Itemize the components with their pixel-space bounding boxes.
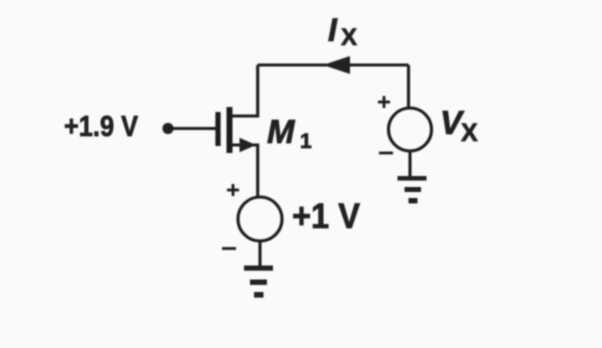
wire Vx top lead [407,65,410,110]
svg-text:M: M [267,113,296,150]
current arrow Ix [323,56,350,74]
source +1V circle [238,197,282,241]
ground (+1V) [244,266,273,298]
+1V plus sign [227,184,239,196]
svg-text:X: X [461,119,478,147]
wire drain lead [232,65,258,116]
label Ix [328,12,357,51]
source Vx circle [389,108,432,151]
+1V minus sign [222,247,236,250]
wire +1V to ground [258,241,261,268]
Vx minus sign [379,152,393,155]
wire source lead [232,145,258,197]
node (gate input dot) [162,123,173,134]
svg-text:1: 1 [300,130,312,153]
transistor M1 source arrow [240,138,257,152]
wire top (drain to Vx) [258,63,409,66]
transistor M1 channel bar [227,107,233,153]
svg-text:+1 V: +1 V [292,197,361,236]
wire Vx to ground [408,151,411,179]
svg-text:I: I [328,12,338,48]
ground (Vx) [398,176,427,203]
wire gate lead [168,127,216,130]
label Vx [440,104,478,147]
label M1 [267,113,312,153]
Vx plus sign [378,96,390,108]
svg-text:X: X [341,24,357,51]
svg-text:+1.9 V: +1.9 V [64,111,139,143]
transistor M1 gate bar [215,112,220,146]
